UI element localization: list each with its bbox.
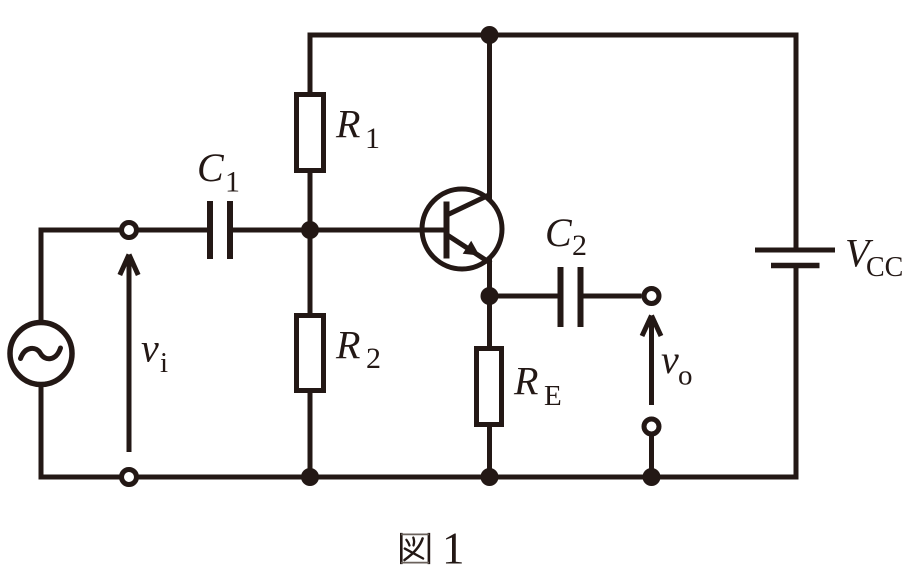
arrow vo: [642, 316, 661, 406]
label Vcc: [845, 231, 903, 284]
wire RE bottom lead: [487, 424, 492, 477]
node dot bottom RE: [481, 468, 499, 486]
transistor emitter diagonal: [448, 236, 491, 264]
wire bottom rail: [39, 475, 799, 480]
transistor base bar: [444, 202, 450, 259]
svg-text:E: E: [544, 380, 562, 412]
svg-text:v: v: [141, 326, 159, 371]
AC source sine symbol: [21, 348, 61, 359]
transistor Q1 body circle: [422, 189, 502, 269]
svg-text:v: v: [661, 337, 679, 382]
transistor emitter arrowhead: [463, 241, 480, 256]
label R1: [335, 102, 380, 156]
wire from C1 to base: [233, 228, 444, 233]
wire input line from source to C1: [39, 228, 208, 233]
terminal input upper: [122, 223, 137, 238]
svg-text:o: o: [678, 360, 693, 392]
svg-text:R: R: [513, 359, 538, 404]
resistor R2: [297, 316, 324, 391]
AC source circle: [10, 323, 72, 385]
battery Vcc short plate: [771, 263, 820, 269]
svg-text:2: 2: [366, 342, 381, 375]
wire R2 top lead: [308, 230, 313, 315]
node dot top rail: [481, 26, 499, 44]
caption figure 1 glyph ZU: [401, 533, 429, 564]
capacitor C1 plates: [210, 201, 230, 259]
wire Vcc bottom lead: [794, 268, 799, 477]
wire left rail upper: [39, 228, 44, 323]
wire collector lead from top rail: [487, 35, 492, 199]
node dot bottom R2: [301, 468, 319, 486]
node dot emitter: [481, 287, 499, 305]
arrow vi: [120, 255, 138, 453]
svg-text:CC: CC: [866, 252, 903, 283]
svg-text:C: C: [197, 145, 225, 190]
wire R2 bottom lead: [308, 391, 313, 477]
resistor R1: [297, 95, 324, 171]
svg-text:C: C: [545, 210, 573, 255]
label C2: [545, 210, 587, 262]
svg-text:1: 1: [225, 166, 240, 199]
wire C2 to output terminal: [583, 294, 642, 299]
svg-text:1: 1: [442, 524, 465, 574]
capacitor C2 plates: [561, 267, 581, 327]
node dot base: [301, 221, 319, 239]
battery Vcc long plate: [755, 248, 835, 253]
svg-text:R: R: [335, 323, 360, 368]
wire R1 bottom lead: [308, 171, 313, 230]
svg-text:R: R: [335, 102, 360, 147]
label vi: [141, 326, 168, 380]
svg-text:i: i: [160, 347, 168, 379]
label vo: [661, 337, 693, 392]
node dot bottom output: [643, 468, 661, 486]
svg-text:1: 1: [365, 122, 380, 155]
terminal output lower: [644, 419, 659, 434]
wire emitter node to C2: [490, 294, 558, 299]
wire RE top lead: [487, 296, 492, 349]
wire top rail with R1 top lead and Vcc right rail: [310, 35, 796, 248]
svg-text:2: 2: [572, 229, 587, 262]
wire emitter lead down: [487, 259, 492, 298]
wire left rail lower: [39, 386, 44, 480]
label RE: [513, 359, 562, 413]
terminal output upper: [644, 289, 659, 304]
label R2: [335, 323, 381, 376]
transistor collector diagonal: [448, 194, 491, 215]
resistor RE: [477, 349, 502, 425]
wire output lower stub: [649, 434, 654, 477]
terminal input lower: [122, 470, 137, 485]
label C1: [197, 145, 240, 199]
